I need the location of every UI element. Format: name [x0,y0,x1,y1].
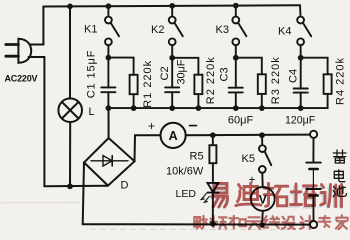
battery terminal top [310,131,317,138]
battery terminal bottom [310,221,317,228]
resistor R5 branch [212,135,214,145]
switch K5 [261,135,263,145]
watermark char tuo [264,183,288,206]
LED [207,183,218,192]
node bus2 R3 [259,105,265,111]
wire ammeter to battery terminal [186,134,310,137]
svg-text:R3 220k: R3 220k [270,56,282,104]
label battery 蓄电池 drawn strokes [333,150,346,197]
svg-text:K3: K3 [216,24,229,36]
scan artifact faint lines [0,202,300,229]
svg-text:LED: LED [176,188,197,200]
node top bus K1 [106,3,112,9]
node R5 top [210,132,216,138]
svg-text:R5: R5 [190,150,204,162]
capacitor C4 [300,58,302,89]
watermark blue ghost pei [289,186,315,208]
node K5 top [259,132,265,138]
node bus2 C2 [169,105,175,111]
ammeter minus dash [190,125,197,127]
wire bridge top to bus2 [108,108,110,138]
switch K2 [171,6,173,17]
plug prong bottom [6,55,19,58]
svg-text:L: L [89,106,95,118]
svg-text:10k/6W: 10k/6W [166,165,204,177]
watermark char she4 [282,217,295,229]
svg-text:AC220V: AC220V [5,74,38,84]
watermark blue ghost yi [210,185,226,208]
watermark char di [236,183,261,205]
node bus2 R2 [196,105,202,111]
node bus2 C1 [106,105,112,111]
wire bridge right up to ammeter [135,135,161,161]
resistor R1 [130,75,138,94]
plug prong top [6,43,19,46]
svg-text:K4: K4 [278,26,291,38]
svg-text:120μF: 120μF [285,114,316,126]
watermark char he [230,216,246,229]
node bus2 C4 [298,105,304,111]
svg-text:R4 220k: R4 220k [334,57,346,105]
wire lamp branch lower [69,122,71,186]
watermark char she2 [194,216,207,229]
node K1 section [106,55,112,61]
ammeter A [161,123,186,148]
watermark char ji [300,216,314,229]
svg-text:60μF: 60μF [228,114,254,126]
node V bottom [259,222,265,228]
svg-text:C2: C2 [159,66,171,80]
node top bus K2 [169,3,175,9]
node bus2 C3 [233,105,239,111]
watermark char pin [210,216,227,229]
wire section2 node run [172,58,198,75]
battery cells [306,162,321,164]
watermark char xian [264,216,280,228]
wire lamp branch upper [69,6,71,98]
watermark blue ghost xun [319,186,340,208]
node K3 section [233,55,239,61]
node top bus lamp [67,4,73,10]
wire top bus [43,5,300,6]
node bus2 R1 [131,105,137,111]
node LED bottom [210,221,216,227]
capacitor C1 [107,58,109,88]
wire bridge left to bottom bus [83,163,84,225]
bridge rectifier D [84,138,135,186]
svg-text:R1 220k: R1 220k [142,60,154,108]
node top bus K3 [233,3,239,9]
watermark char zhuan [319,216,331,227]
svg-text:A: A [169,129,178,143]
svg-text:30μF: 30μF [176,59,188,84]
resistor R4 [324,74,332,94]
wire section4 node run [301,58,328,75]
svg-text:K5: K5 [242,153,255,165]
switch K1 [107,6,109,16]
watermark char jia [336,215,348,229]
capacitor C2 [171,58,173,88]
svg-text:K2: K2 [151,24,164,36]
svg-text:C4: C4 [287,69,299,83]
svg-text:+: + [148,119,155,133]
watermark char tian [248,217,261,229]
node AC lamp junction [67,183,73,189]
watermark char pei [291,184,317,206]
wire plug live to top bus [31,7,44,45]
svg-text:C3: C3 [218,67,230,81]
wire AC lower run to bridge [44,185,107,188]
wire section1 node run [108,58,133,75]
watermark char xun [321,185,342,207]
svg-text:D: D [121,180,129,192]
watermark [194,183,347,229]
switch K3 [235,6,237,17]
svg-text:R2 220k: R2 220k [205,56,217,104]
resistor R3 [258,74,266,94]
plug AC220V body [18,39,31,63]
voltmeter V [251,187,275,211]
wire plug neutral down [29,57,45,186]
watermark char yi [212,184,228,207]
node K2 section [169,55,175,61]
wire bottom bus [83,223,310,225]
wire section3 node run [236,58,262,75]
node K4 section [298,55,304,61]
svg-text:K1: K1 [84,24,97,36]
capacitor C3 [235,58,237,88]
resistor R2 [194,75,202,94]
switch K4 [299,5,302,16]
wire bus2 [108,107,327,109]
svg-text:C1 15μF: C1 15μF [85,50,97,99]
lamp L [58,98,82,122]
